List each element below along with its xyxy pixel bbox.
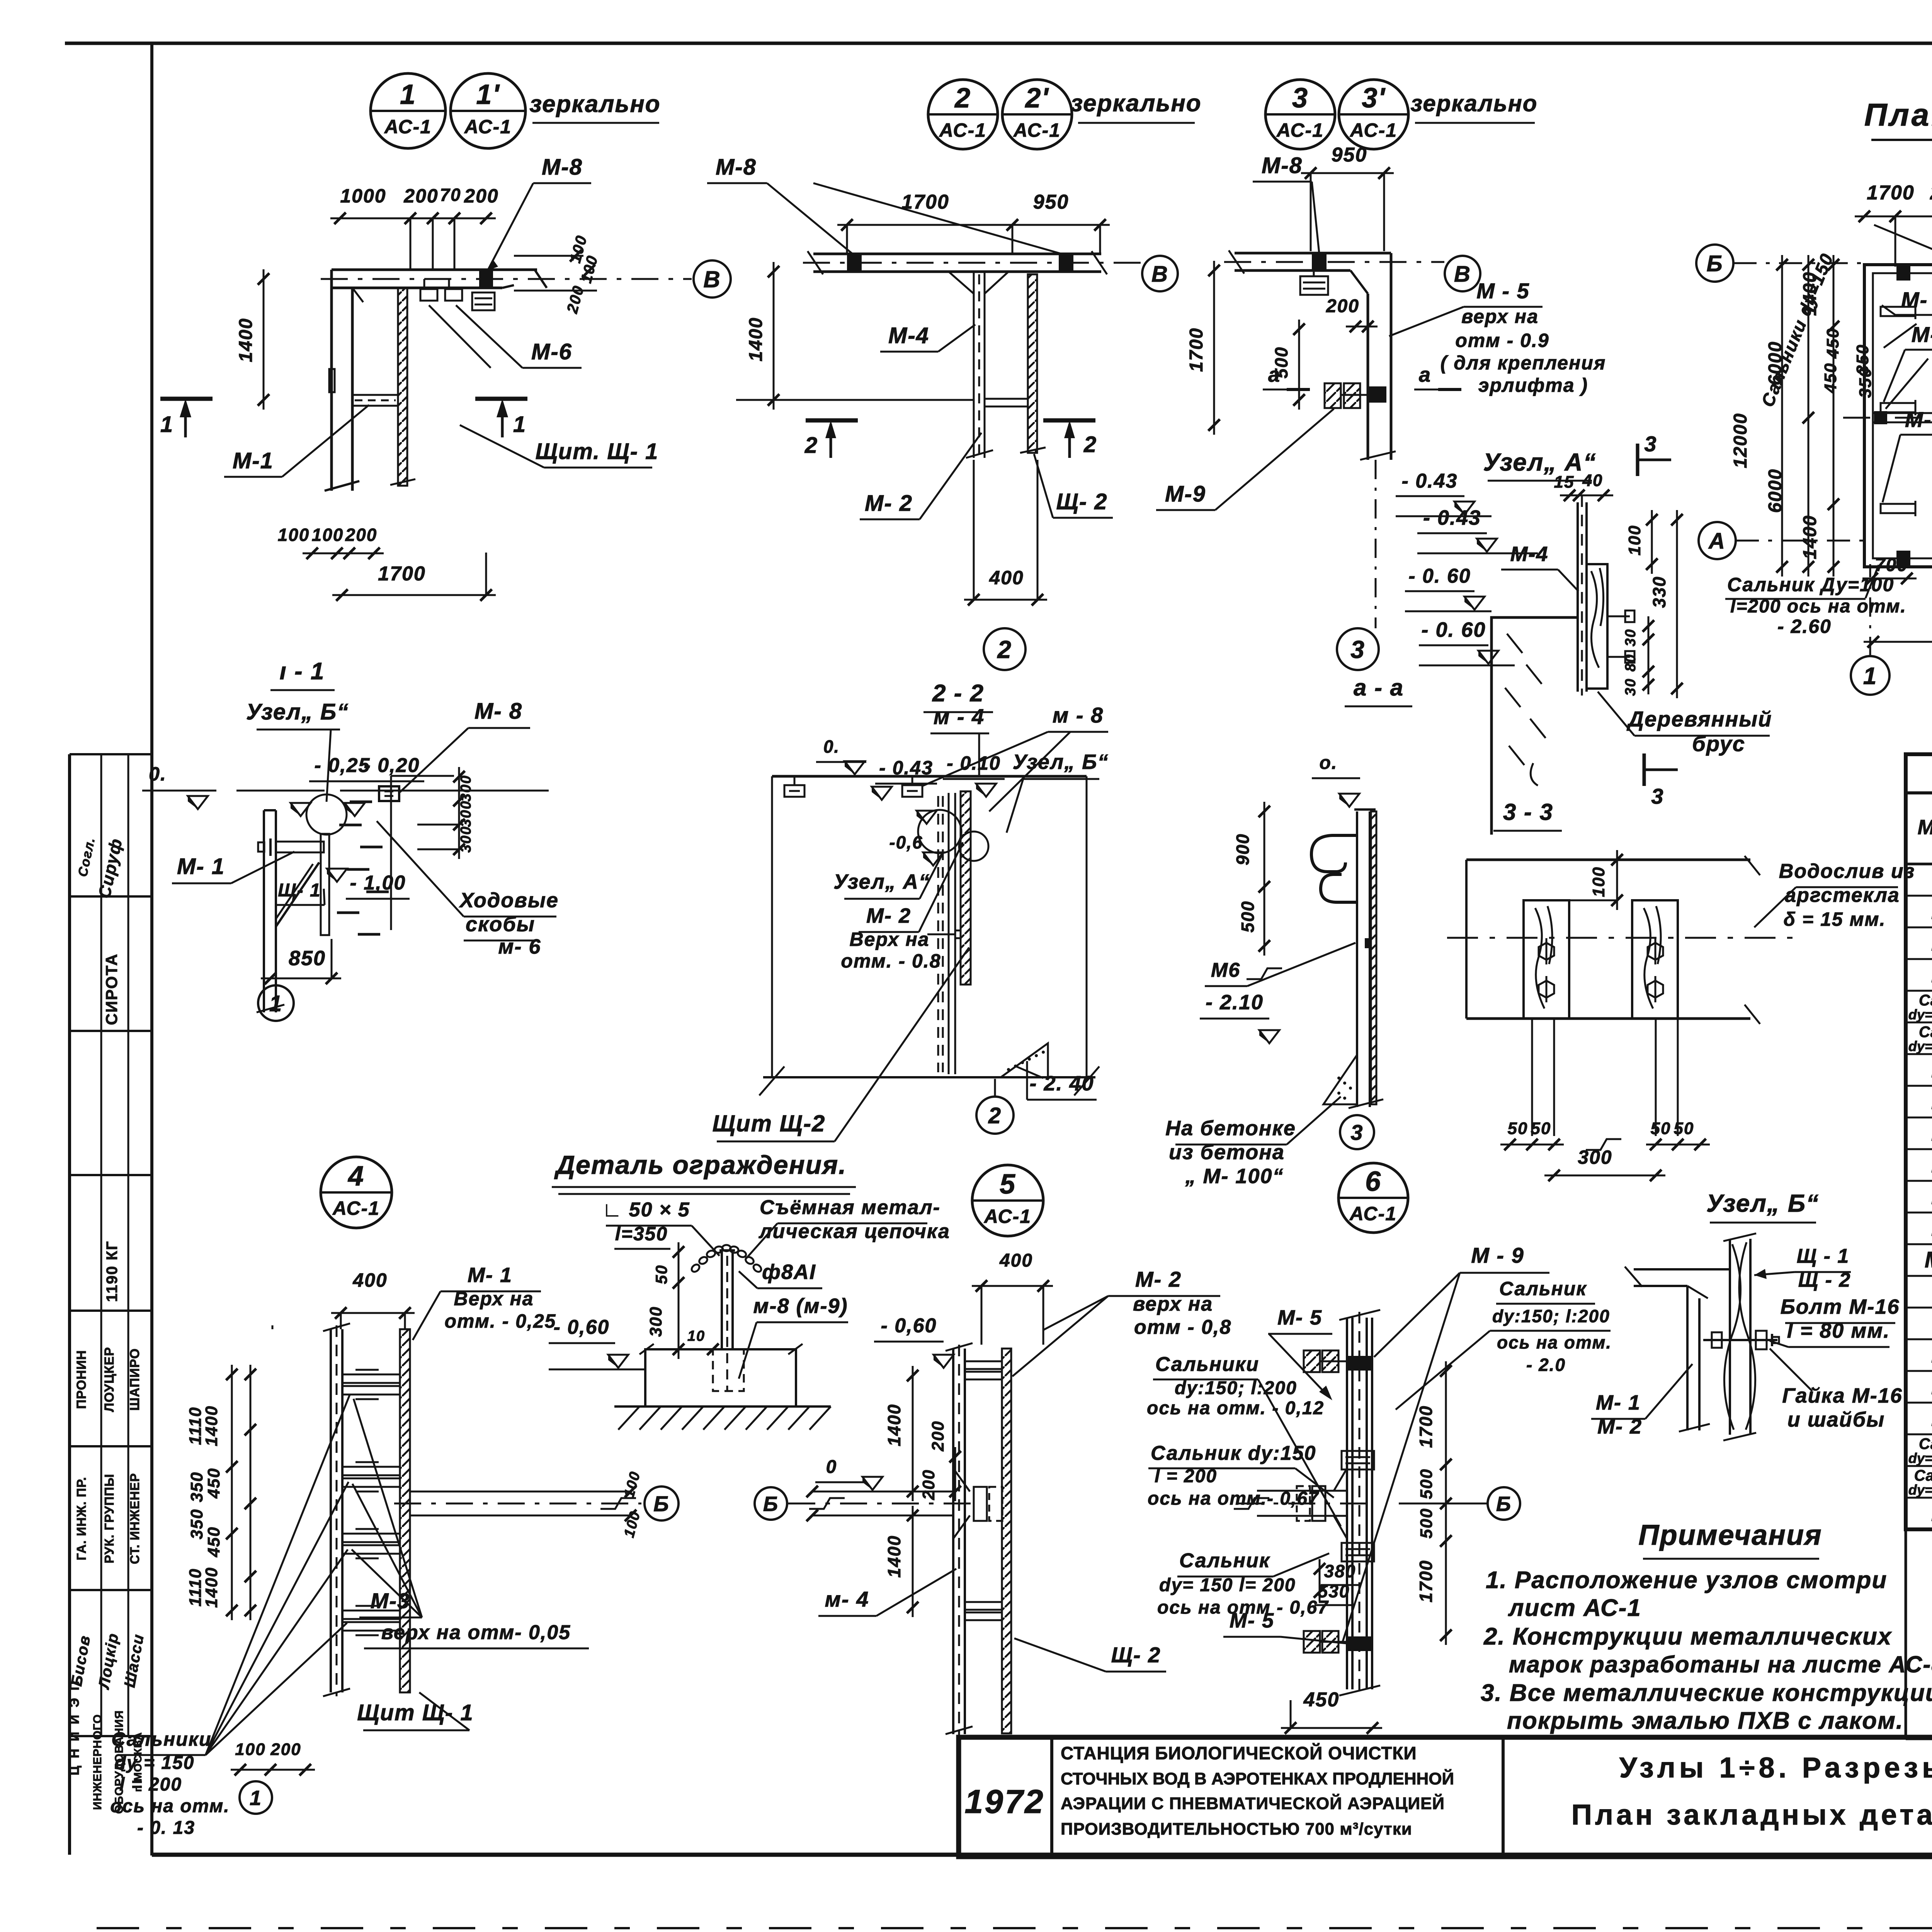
section 6 label М-5 bottom <box>1223 1609 1354 1644</box>
svg-text:2': 2' <box>1024 83 1049 114</box>
section а-а title <box>1345 675 1412 706</box>
svg-text:верх на отм- 0,05: верх на отм- 0,05 <box>381 1621 571 1644</box>
node 3 dims 1700 500 <box>1186 261 1305 435</box>
svg-text:В: В <box>1151 262 1168 287</box>
section 6 pipe joint right wall <box>1234 1468 1376 1539</box>
примечания heading <box>1638 1519 1822 1559</box>
svg-text:10: 10 <box>687 1328 705 1344</box>
svg-text:М- 1: М- 1 <box>1596 1391 1641 1414</box>
section 2-2 labels М-4 М-8 <box>922 703 1108 811</box>
svg-text:850: 850 <box>289 947 326 970</box>
node 1 label М-1 <box>224 405 369 477</box>
plan aeration pipe <box>1843 413 1932 422</box>
svg-text:„ М- 100“: „ М- 100“ <box>1185 1165 1284 1188</box>
svg-text:АС-1: АС-1 <box>1276 119 1324 141</box>
svg-text:3': 3' <box>1362 83 1386 114</box>
svg-text:50: 50 <box>652 1265 670 1284</box>
svg-text:dy:150; l:200: dy:150; l:200 <box>1175 1378 1297 1398</box>
svg-text:зеркально: зеркально <box>529 91 660 117</box>
node 3 anchor М-8 <box>1312 253 1327 270</box>
svg-text:СТАНЦИЯ БИОЛОГИЧЕСКОЙ ОЧИСТК: СТАНЦИЯ БИОЛОГИЧЕСКОЙ ОЧИСТКИ <box>1061 1743 1417 1763</box>
stamp org ЦНИИЭП инженерного оборудования <box>67 1679 144 1814</box>
svg-text:ШАПИРО: ШАПИРО <box>128 1348 142 1411</box>
section 6 label М-4 <box>818 1569 956 1616</box>
node 1 label М-8 <box>488 155 591 270</box>
section 6 dim 450 <box>1281 1689 1382 1734</box>
узел Б label М-1 М-2 <box>1591 1364 1692 1438</box>
узел Б bolt М-16 <box>1703 1331 1779 1349</box>
узел А title <box>1483 448 1597 481</box>
svg-text:- 0,20: - 0,20 <box>364 754 420 777</box>
svg-text:м-8 (м-9): м-8 (м-9) <box>753 1294 848 1318</box>
node 3 slab and wall <box>1224 250 1444 460</box>
svg-text:50: 50 <box>1651 1119 1671 1138</box>
section 3-3 label водослив <box>1754 860 1915 930</box>
detail bubbles 1 and 1' зеркально <box>371 73 661 148</box>
section 2-2 node circle and узел А <box>833 810 988 899</box>
svg-text:Щит Щ- 1: Щит Щ- 1 <box>357 1700 474 1725</box>
node 3 anchor on wall <box>1368 386 1386 403</box>
svg-text:Щ - 1: Щ - 1 <box>1797 1245 1850 1267</box>
node 1 label М-6 <box>429 305 582 368</box>
svg-text:АС-1: АС-1 <box>939 119 986 141</box>
узел А level -0.43 <box>1396 470 1492 516</box>
svg-text:Гайка М-16: Гайка М-16 <box>1782 1384 1903 1407</box>
section 2-2 concrete wedge <box>1001 1043 1048 1078</box>
svg-text:2 - 2: 2 - 2 <box>932 680 984 707</box>
svg-text:1400: 1400 <box>236 318 256 362</box>
svg-text:530: 530 <box>1318 1581 1350 1601</box>
svg-text:ı - 1: ı - 1 <box>280 658 325 685</box>
svg-text:м- 6: м- 6 <box>498 935 541 958</box>
svg-text:На бетонке: На бетонке <box>1165 1117 1296 1140</box>
svg-text:АС-1: АС-1 <box>1349 1203 1397 1225</box>
svg-text:30: 30 <box>1622 629 1639 646</box>
fence labels angle and chain <box>602 1196 950 1259</box>
svg-text:450: 450 <box>1303 1689 1340 1711</box>
svg-text:М-10: М-10 <box>1925 1247 1932 1272</box>
svg-text:1700: 1700 <box>1867 182 1915 204</box>
svg-text:900: 900 <box>1233 833 1253 866</box>
svg-text:1700: 1700 <box>1186 328 1207 372</box>
stamp signatures upper <box>75 836 126 900</box>
node 1 right side dims 100 100 200 <box>514 233 601 316</box>
fence label м-8(м-9) <box>739 1294 848 1379</box>
section а-а label На бетонке из бетона М-100 <box>1165 1097 1341 1188</box>
svg-text:1190 КГ: 1190 КГ <box>104 1241 121 1302</box>
node 2 dim 1400 <box>736 262 974 410</box>
svg-text:М-6: М-6 <box>531 339 572 364</box>
svg-text:1: 1 <box>513 412 526 437</box>
section 6 label Сальник -0.67 lower <box>1157 1549 1329 1618</box>
section а-а level -2.10 <box>1200 991 1279 1043</box>
node 1 slab <box>321 270 692 288</box>
svg-text:100: 100 <box>1625 525 1644 555</box>
fence level -0.60 <box>549 1316 645 1369</box>
svg-text:ЛОУЦКЕР: ЛОУЦКЕР <box>102 1347 117 1412</box>
svg-text:1400: 1400 <box>1800 515 1820 560</box>
svg-text:0.: 0. <box>149 763 167 785</box>
svg-text:М- 1: М- 1 <box>177 854 225 879</box>
plan inner label М-1 upper <box>1882 287 1932 348</box>
plan bottom axis circles 1 2 3 <box>1851 218 1932 695</box>
node 2 slab <box>803 251 1142 274</box>
section 6 level 0 <box>815 1457 883 1490</box>
svg-text:М-8: М-8 <box>542 155 583 180</box>
svg-text:Б: Б <box>1496 1492 1512 1515</box>
section 1-1 axis circle 1 <box>258 985 294 1021</box>
узел А concrete wall corner <box>1492 617 1578 835</box>
svg-text:- 2.60: - 2.60 <box>1777 616 1832 637</box>
section 6 left wall brackets <box>965 1361 1002 1620</box>
node 2 column М-4 with haunch <box>949 272 1009 458</box>
node 2 panel Щ-2 <box>1020 274 1046 453</box>
svg-text:dy=150 l=200: dy=150 l=200 <box>1908 1482 1932 1498</box>
section 2-2 axis circle 2 <box>976 1079 1014 1134</box>
plan inner label М-3 <box>1884 322 1932 409</box>
svg-text:4: 4 <box>347 1161 364 1192</box>
svg-text:- 0. 60: - 0. 60 <box>1421 618 1486 641</box>
svg-text:Сальник dy:150: Сальник dy:150 <box>1151 1442 1316 1464</box>
svg-text:ф8АI: ф8АI <box>762 1260 816 1284</box>
svg-text:а: а <box>1419 363 1431 386</box>
section 1-1 title <box>270 658 335 690</box>
section 4 wall and panel <box>323 1323 410 1696</box>
node 2 anchors М-8 <box>847 254 1073 272</box>
svg-text:1400: 1400 <box>884 1404 904 1446</box>
svg-text:1400: 1400 <box>202 1567 221 1608</box>
svg-text:350: 350 <box>187 1471 206 1502</box>
svg-text:1: 1 <box>160 412 173 437</box>
узел Б slab and wall <box>1625 1267 1730 1432</box>
section 6 level -0.60 top <box>874 1315 954 1368</box>
svg-text:3: 3 <box>1651 784 1664 808</box>
svg-text:6: 6 <box>1365 1166 1381 1197</box>
section 2-2 label М-2 верх на отм -0.8 <box>841 842 963 972</box>
section 4 axis circle Б <box>645 1486 679 1520</box>
узел Б title <box>1706 1189 1819 1223</box>
svg-text:отм. - 0.8: отм. - 0.8 <box>841 950 941 972</box>
svg-text:верх на: верх на <box>1133 1293 1213 1315</box>
section 1-1 ladder rungs М-6 <box>337 802 389 934</box>
plan wall brackets М-1 left <box>1881 304 1915 516</box>
svg-text:ИНЖЕНЕРНОГО: ИНЖЕНЕРНОГО <box>91 1714 104 1810</box>
section 1-1 М-8 plate <box>379 786 399 801</box>
section 1-1 label Щ-1 <box>275 880 325 905</box>
svg-text:АС-1: АС-1 <box>464 116 512 138</box>
plan dimension chain top <box>1855 182 1932 267</box>
svg-text:ПРОНИН: ПРОНИН <box>74 1350 89 1409</box>
svg-text:- 0.43: - 0.43 <box>1423 506 1481 529</box>
svg-text:Б: Б <box>763 1492 779 1515</box>
svg-text:6000: 6000 <box>1765 469 1786 513</box>
svg-text:dy= 150 l= 200: dy= 150 l= 200 <box>1159 1575 1296 1595</box>
node 3 label М-5 эрлифт note <box>1389 279 1606 396</box>
node 1 anchor М-8 <box>479 270 493 288</box>
svg-text:о.: о. <box>1320 753 1338 773</box>
svg-text:ПРОИЗВОДИТЕЛЬНОСТЬЮ 700 м³/сут: ПРОИЗВОДИТЕЛЬНОСТЬЮ 700 м³/сутки <box>1061 1820 1412 1838</box>
plan grid circle Б <box>1696 245 1864 282</box>
svg-text:1400: 1400 <box>202 1405 221 1446</box>
section 1-1 levels <box>142 754 549 816</box>
section 6 axis circle Б left <box>755 1487 787 1520</box>
svg-text:200: 200 <box>929 1420 947 1451</box>
detail bubbles 2 and 2' зеркально <box>928 80 1202 149</box>
svg-text:М-4: М-4 <box>888 323 929 348</box>
section 6 label Сальник dy150 -0.67 upper <box>1148 1442 1334 1509</box>
svg-text:-0,6: -0,6 <box>889 832 923 852</box>
sheet frame top border <box>65 42 1932 45</box>
section а-а hook М-9 <box>1311 835 1357 902</box>
svg-text:1: 1 <box>250 1786 262 1810</box>
узел А level -0.60 <box>1405 565 1492 611</box>
section 4 dims 100 200 <box>231 1740 315 1776</box>
section 6 axis circle Б right <box>1399 1487 1520 1520</box>
svg-text:400: 400 <box>989 567 1024 588</box>
svg-text:лическая цепочка: лическая цепочка <box>758 1220 950 1243</box>
plan bottom axis dim 4500 and а <box>1864 609 1932 648</box>
svg-text:- 0.43: - 0.43 <box>1402 470 1458 492</box>
примечания notes text <box>1481 1567 1932 1734</box>
section 1-1 dims 300x3 <box>417 767 474 859</box>
node 2 dim 1700 950 <box>837 191 1110 253</box>
узел А bolts <box>1607 611 1634 663</box>
svg-text:Щит Щ-2: Щит Щ-2 <box>713 1111 826 1136</box>
svg-text:dy=150 l=200: dy=150 l=200 <box>1908 1038 1932 1054</box>
section 2-2 level -2.40 <box>1027 1061 1097 1100</box>
section 4 label М-1 верх на отм -0.25 <box>413 1264 556 1340</box>
svg-text:М- 2: М- 2 <box>1135 1267 1182 1291</box>
svg-text:СТ. ИНЖЕНЕР: СТ. ИНЖЕНЕР <box>128 1473 142 1564</box>
svg-text:100: 100 <box>1589 866 1608 897</box>
svg-text:70: 70 <box>440 185 461 205</box>
svg-text:М- 1: М- 1 <box>468 1264 512 1287</box>
section 6 glands on right wall <box>1304 1350 1347 1653</box>
svg-text:зеркально: зеркально <box>1070 90 1201 117</box>
node 1 section marks 1-1 <box>160 399 527 437</box>
svg-text:2: 2 <box>988 1103 1002 1128</box>
node 1 bracket <box>352 395 398 406</box>
svg-text:Сальник Ду=100: Сальник Ду=100 <box>1727 574 1894 595</box>
section 6 dims 380 530 <box>1314 1559 1359 1605</box>
svg-text:В: В <box>1454 262 1471 287</box>
svg-text:100: 100 <box>278 525 310 545</box>
node 3 gland М-9 <box>1325 383 1368 408</box>
node 2 dim 400 <box>964 460 1047 605</box>
svg-text:Съёмная метал-: Съёмная метал- <box>760 1196 940 1219</box>
bottom dashed fold line <box>97 1927 1932 1929</box>
svg-text:- 0.43: - 0.43 <box>879 757 933 779</box>
svg-text:0.: 0. <box>823 736 840 757</box>
svg-text:В: В <box>703 267 721 293</box>
detail bubble 4 <box>321 1157 392 1228</box>
svg-text:5: 5 <box>1000 1169 1016 1200</box>
svg-text:м- 4: м- 4 <box>825 1587 869 1611</box>
svg-text:30: 30 <box>1622 678 1639 696</box>
section 4 label М-3 <box>352 1399 589 1648</box>
stamp signatures lower <box>68 1631 147 1691</box>
svg-text:Сальники: Сальники <box>111 1728 211 1750</box>
svg-text:М- 2: М- 2 <box>865 491 913 516</box>
svg-text:Щит. Щ- 1: Щит. Щ- 1 <box>536 439 659 464</box>
svg-text:Марка: Марка <box>1918 816 1932 839</box>
svg-text:М- 5: М- 5 <box>1277 1306 1322 1329</box>
svg-text:М-3: М-3 <box>1912 322 1932 347</box>
узел А section mark 3 top <box>1638 432 1671 476</box>
plan title План закладных деталей <box>1864 97 1932 140</box>
section 4 brackets with bolts <box>342 1370 400 1635</box>
plan dim 700 <box>1862 555 1917 584</box>
node 2 labels М-2 Щ-2 <box>860 433 1113 519</box>
node 3 section marks а-а <box>1263 363 1461 389</box>
svg-text:отм. - 0,25: отм. - 0,25 <box>445 1310 556 1332</box>
svg-text:l = 200: l = 200 <box>1155 1466 1217 1486</box>
section 6 right dims 1700 500 <box>1416 1361 1452 1645</box>
node 2 section marks 2-2 <box>804 420 1097 458</box>
node 2 bracket <box>985 399 1028 406</box>
svg-text:100: 100 <box>312 525 344 545</box>
section 1-1 node circle <box>306 794 347 835</box>
section 6 label Сальники -0.12 <box>1147 1353 1341 1526</box>
title block sheet title <box>1571 1752 1932 1831</box>
svg-text:Узел„ Б“: Узел„ Б“ <box>1013 750 1109 774</box>
svg-text:3: 3 <box>1644 432 1657 456</box>
section 2-2 label Щит Щ-2 <box>713 947 969 1141</box>
node 3 dim 200 <box>1326 296 1378 332</box>
section 2-2 узел Б callout <box>1007 750 1109 833</box>
узел А wooden brus <box>1587 564 1607 689</box>
svg-text:Узел„ Б“: Узел„ Б“ <box>1706 1189 1819 1217</box>
stamp roles ГА.ИНЖ.ПР РУК.ГРУППЫ СТ.ИНЖЕНЕР <box>74 1473 142 1564</box>
node 3 label М-9 <box>1156 409 1334 510</box>
svg-text:покрыть эмалью ПХВ с лаком.: покрыть эмалью ПХВ с лаком. <box>1507 1708 1903 1734</box>
svg-text:∟ 50 × 5: ∟ 50 × 5 <box>602 1199 690 1221</box>
section 4 dim 400 <box>331 1269 415 1329</box>
svg-text:2800: 2800 <box>1930 182 1932 204</box>
svg-text:80: 80 <box>1622 654 1639 672</box>
svg-text:400: 400 <box>999 1250 1033 1271</box>
section 3-3 slab <box>1447 856 1793 1024</box>
plan inner label М-1 lower <box>1883 407 1932 502</box>
svg-text:Водослив из: Водослив из <box>1779 860 1915 883</box>
svg-text:А: А <box>1708 529 1726 554</box>
svg-text:500: 500 <box>1417 1468 1436 1499</box>
svg-text:и шайбы: и шайбы <box>1787 1408 1885 1431</box>
detail bubbles 3 and 3' зеркально <box>1265 80 1537 149</box>
svg-text:М-1: М-1 <box>233 448 274 473</box>
svg-text:0: 0 <box>826 1457 837 1477</box>
section 3-3 wooden posts <box>1524 900 1678 1019</box>
узел Б label Щ-1 Щ-2 <box>1754 1245 1851 1291</box>
svg-text:М - 5: М - 5 <box>1476 279 1530 303</box>
node 1 dims 100 100 200 1700 <box>278 525 496 601</box>
svg-text:3. Все металлические констру: 3. Все металлические конструкции <box>1481 1680 1932 1706</box>
detail bubble 5 <box>972 1165 1043 1236</box>
section а-а dims 900 500 <box>1233 802 1282 979</box>
svg-text:- 1,00: - 1,00 <box>350 872 406 894</box>
svg-text:700: 700 <box>1875 555 1908 575</box>
plan grid circle А <box>1699 522 1864 559</box>
stamp weight 1190 КГ <box>104 1241 121 1302</box>
plan anchor plates М-8 bottom wall <box>1896 551 1932 566</box>
svg-text:- 0. 13: - 0. 13 <box>137 1818 195 1838</box>
svg-text:Узел„ А“: Узел„ А“ <box>1483 448 1597 476</box>
svg-text:450: 450 <box>1821 362 1840 393</box>
svg-text:ось на отм.: ось на отм. <box>1497 1332 1612 1352</box>
svg-text:М- 5: М- 5 <box>1230 1609 1274 1632</box>
section 2-2 hangers <box>784 776 922 797</box>
svg-text:а - а: а - а <box>1354 675 1404 701</box>
svg-text:400: 400 <box>352 1269 387 1291</box>
plan label Сальник Ду=100 bottom left <box>1725 565 1906 637</box>
detail bubble 6 <box>1338 1163 1408 1233</box>
svg-text:12000: 12000 <box>1730 413 1751 468</box>
svg-text:М- 1: М- 1 <box>1901 287 1932 312</box>
svg-text:Узлы 1÷8. Разрезы. Сечения.: Узлы 1÷8. Разрезы. Сечения. <box>1619 1752 1932 1784</box>
svg-text:АС-1: АС-1 <box>384 116 432 138</box>
svg-text:АС-1: АС-1 <box>1349 119 1397 141</box>
svg-text:1400: 1400 <box>746 317 766 362</box>
section а-а М6 tick <box>1205 938 1371 986</box>
svg-text:950: 950 <box>1332 144 1367 166</box>
svg-text:эрлифта ): эрлифта ) <box>1478 374 1588 396</box>
svg-text:Б: Б <box>1706 251 1723 276</box>
svg-text:1972: 1972 <box>964 1783 1044 1820</box>
svg-text:l=200 ось на отм.: l=200 ось на отм. <box>1730 596 1906 617</box>
svg-text:- 0,60: - 0,60 <box>554 1316 610 1338</box>
svg-text:- 0. 60: - 0. 60 <box>1408 565 1471 587</box>
section 2-2 wall outline <box>759 776 1099 1095</box>
svg-text:- 0,60: - 0,60 <box>881 1315 937 1337</box>
section 3-3 bottom dims 50 50 300 <box>1500 1019 1710 1181</box>
svg-text:2: 2 <box>997 636 1012 663</box>
node 3 dim 950 <box>1301 144 1394 251</box>
svg-text:50: 50 <box>1508 1119 1528 1138</box>
svg-text:330: 330 <box>1649 576 1669 608</box>
section 1-1 узел Б callout <box>246 699 349 802</box>
svg-text:dy = 150: dy = 150 <box>115 1753 195 1773</box>
svg-text:м - 8: м - 8 <box>1053 703 1104 727</box>
section 1-1 bracket М-1 <box>258 834 329 935</box>
section 6 right wall small brackets <box>1342 1451 1374 1561</box>
section 3-3 title <box>1493 799 1562 831</box>
plan left dimension chains <box>1730 255 1839 577</box>
node 2 label М-8 left <box>707 155 1066 255</box>
section а-а concrete wedge <box>1323 1055 1357 1104</box>
stamp name СИРОТА <box>102 953 121 1025</box>
svg-text:2: 2 <box>954 83 971 114</box>
svg-text:2. Конструкции металлических: 2. Конструкции металлических <box>1483 1623 1892 1650</box>
fence detail title <box>552 1150 856 1194</box>
svg-text:l = 200: l = 200 <box>119 1774 182 1795</box>
svg-text:АС-1: АС-1 <box>332 1197 380 1219</box>
svg-text:Щ- 1: Щ- 1 <box>278 880 321 901</box>
svg-text:380: 380 <box>1324 1561 1356 1581</box>
svg-text:Сальники: Сальники <box>1155 1353 1259 1376</box>
svg-text:верх на: верх на <box>1461 306 1539 327</box>
svg-text:δ = 15 мм.: δ = 15 мм. <box>1784 908 1886 930</box>
узел А channel post <box>1578 495 1587 696</box>
plan outer walls <box>1864 265 1932 567</box>
plan inner rotated dims 450 350 <box>1757 250 1875 410</box>
section а-а level 0 <box>1312 753 1360 807</box>
node 3 axis circle 3 <box>1337 460 1379 670</box>
svg-text:Б: Б <box>653 1492 670 1516</box>
fence base block <box>639 1344 803 1406</box>
section 1-1 wall <box>257 810 284 1012</box>
svg-text:dy=100 l=200: dy=100 l=200 <box>1908 1450 1932 1466</box>
svg-text:l = 80 мм.: l = 80 мм. <box>1787 1319 1890 1342</box>
